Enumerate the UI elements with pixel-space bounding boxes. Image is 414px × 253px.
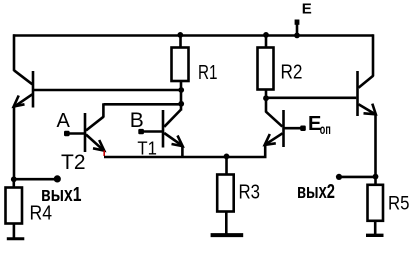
wire R4 top lead [13,179,16,187]
svg-text:E: E [302,0,312,17]
node junction E on rail [294,33,300,39]
wire R1 top lead [179,36,182,48]
svg-text:R3: R3 [239,182,261,204]
node junction R2 top [263,32,269,38]
node junction R2 bottom [263,95,269,101]
transistor T5 (right output emitter follower) [358,71,376,116]
wire R3 top lead [225,157,228,175]
node junction at R4 top [11,176,17,182]
terminal вых1 dot [54,175,61,182]
wire R5 bottom lead [374,221,377,235]
wire T3 emitter drop [264,145,267,158]
wire R4 bottom lead [13,224,16,239]
transistor T4 (left output emitter follower) [14,70,33,107]
wire left drop to T4 collector [13,34,16,71]
node junction R1-T2 collector [178,101,184,107]
wire A to T2 base [67,132,84,135]
wire R1 bottom lead [180,81,183,111]
svg-text:R5: R5 [388,194,410,215]
terminal A dot [64,131,70,136]
wire T4 base to R1 node [34,89,181,92]
wire top rail corner drop (T5 collector) [372,34,375,76]
node junction at R5 top [373,174,379,180]
svg-text:T2: T2 [61,150,86,174]
wire R3 bottom lead [225,212,228,234]
ground (R4) [7,237,25,240]
wire B to T1 base [141,130,162,133]
terminal вых2 dot [336,174,342,180]
resistor R3 [217,175,234,212]
wire T5 emitter drop [374,114,377,185]
wire to вых2 terminal [340,176,376,179]
wire T4 emitter drop [13,107,16,181]
terminal B dot [138,129,144,134]
transistor T2 [85,103,104,152]
svg-text:R1: R1 [198,62,218,84]
terminal E square [295,20,300,25]
wire R2 top lead [265,36,268,48]
ground (R5) [366,234,384,237]
node junction R1-T4 base [178,87,184,93]
svg-text:вых2: вых2 [297,181,335,203]
ground (R3) [211,233,244,237]
svg-text:оп: оп [320,122,331,137]
wire to вых1 terminal [14,178,57,181]
svg-text:B: B [130,109,144,132]
node junction R1 top [177,32,183,38]
wire R2 node to T5 base [266,97,356,100]
node junction R3 top [224,154,230,160]
resistor R2 [258,48,274,90]
resistor R5 [368,185,384,221]
transistor T3 (reference, base to Eоп) [265,98,284,147]
transistor T1 [163,110,183,148]
wire T1 emitter drop [181,146,184,157]
red artifact at T2 emitter corner [103,151,105,157]
svg-text:A: A [57,110,71,132]
resistor R4 [6,188,23,224]
wire common emitter rail [104,156,267,159]
wire T3 base stub [285,127,303,130]
wire R2 bottom lead [265,90,268,100]
wire T2 collector to R1 node [104,103,182,106]
svg-text:R2: R2 [281,62,303,84]
svg-text:R4: R4 [30,202,53,225]
terminal E supply stub [296,25,299,37]
terminal Eоп dot [300,126,306,132]
resistor R1 [172,48,189,82]
wire top supply rail [13,34,374,37]
